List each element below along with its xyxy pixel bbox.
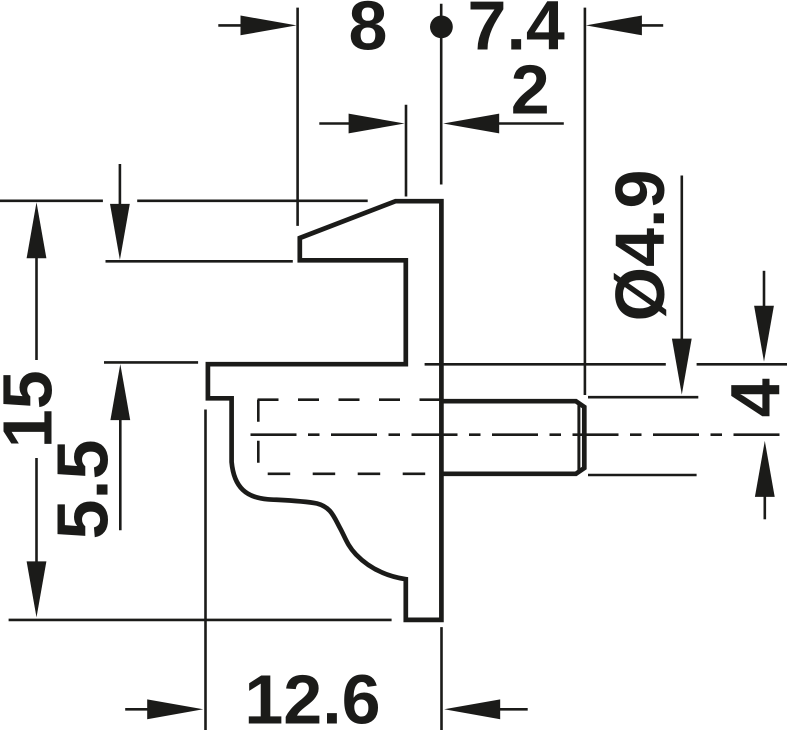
svg-text:2: 2 [511,51,550,129]
svg-text:5.5: 5.5 [44,439,124,539]
svg-text:15: 15 [0,370,67,448]
svg-text:Ø4.9: Ø4.9 [601,170,679,322]
svg-text:4: 4 [717,378,787,417]
svg-text:8: 8 [349,0,388,65]
svg-text:12.6: 12.6 [244,661,380,730]
